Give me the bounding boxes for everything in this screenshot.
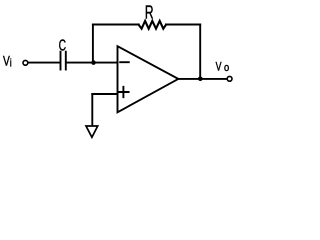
wire top rail left: [93, 24, 139, 26]
node Vo label: [216, 60, 230, 74]
op-amp non-inverting sign: [118, 87, 128, 97]
svg-text:R: R: [145, 3, 154, 23]
svg-text:V: V: [216, 60, 223, 74]
node inverting input junction: [91, 60, 96, 65]
wire input: [29, 62, 60, 64]
ground: [86, 126, 98, 137]
svg-text:i: i: [10, 57, 12, 70]
input terminal: [23, 60, 28, 65]
wire feedback right vertical: [199, 25, 201, 79]
op-amp inverting sign: [120, 61, 129, 63]
output terminal: [227, 76, 232, 81]
wire feedback left vertical: [92, 25, 94, 63]
capacitor C plate left: [60, 52, 62, 70]
capacitor C plate right: [65, 52, 67, 70]
node output junction: [198, 77, 203, 82]
op-amp U1: [118, 46, 179, 112]
node Vi label: [3, 53, 12, 70]
svg-text:C: C: [59, 36, 67, 54]
wire ground branch: [91, 94, 93, 126]
svg-text:o: o: [224, 62, 229, 74]
wire capacitor to op-amp: [67, 62, 118, 64]
resistor R: [139, 21, 166, 29]
wire top rail right: [166, 24, 200, 26]
wire output: [178, 78, 227, 80]
wire non-inverting input: [92, 93, 117, 95]
